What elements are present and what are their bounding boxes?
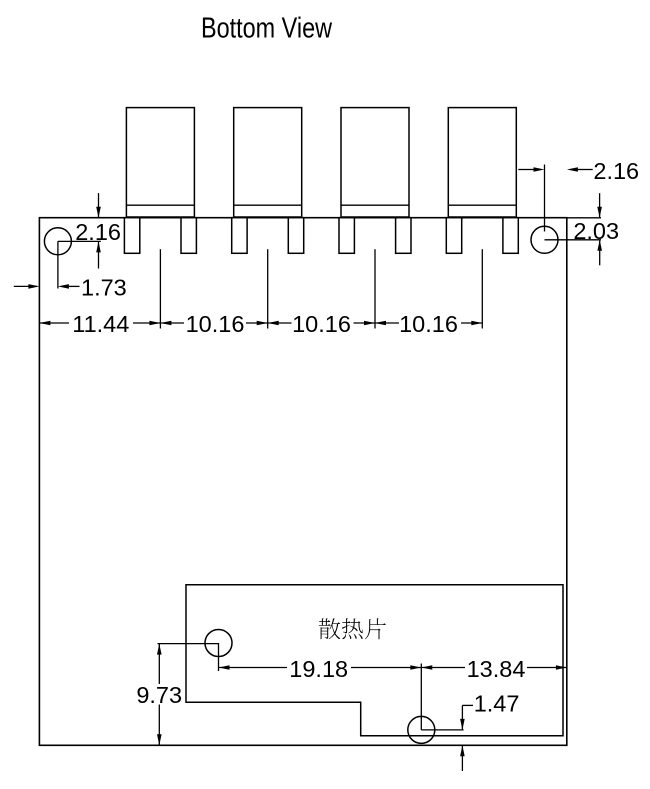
dimension line row (19.18 and 13.84) [219, 659, 567, 679]
dimension 2.03 (top-right hole to top edge) [545, 193, 620, 265]
dimension 2.16 (top-right hole to right edge) [518, 158, 639, 232]
svg-text:11.44: 11.44 [72, 311, 129, 337]
dimension 10.16 third [375, 321, 482, 326]
connector J4 right pin [503, 218, 518, 254]
connector J3 right pin [396, 218, 411, 254]
svg-text:1.47: 1.47 [474, 691, 520, 717]
extension line below connector J1 [159, 249, 161, 328]
extension line below connector J3 [374, 249, 376, 328]
connector J2 left pin [232, 218, 247, 254]
board outline [39, 218, 566, 746]
connector J1 left pin [124, 218, 139, 254]
heatsink hole left [205, 630, 232, 657]
connector J2 right pin [288, 218, 303, 254]
mounting hole top-left [44, 228, 71, 255]
dimension 10.16 second [268, 321, 375, 326]
svg-text:10.16: 10.16 [186, 311, 245, 337]
connector J1 right pin [181, 218, 196, 254]
svg-text:9.73: 9.73 [136, 682, 182, 708]
connector J2 body [234, 108, 302, 217]
svg-text:2.16: 2.16 [75, 219, 121, 245]
svg-text:2.16: 2.16 [593, 158, 639, 184]
dimension 10.16 first [160, 321, 267, 326]
extension line from heatsink hole bottom [420, 664, 422, 730]
svg-text:13.84: 13.84 [467, 656, 526, 682]
connector J4 body [448, 108, 516, 217]
svg-text:10.16: 10.16 [399, 311, 458, 337]
bottom arrow below board edge [460, 745, 465, 771]
svg-text:19.18: 19.18 [289, 656, 348, 682]
dimension 9.73 (heatsink hole to bottom edge) [135, 644, 219, 746]
svg-text:10.16: 10.16 [292, 311, 351, 337]
dimension line row (11.44 and 10.16 pitches) [39, 312, 482, 333]
dimension 1.73 (left edge to hole center) [14, 241, 127, 300]
heatsink label 散热片 [319, 618, 386, 639]
connector J4 left pin [446, 218, 461, 254]
connector J3 body [341, 108, 409, 217]
heatsink hole bottom [408, 716, 435, 743]
connector J1 body [126, 108, 194, 217]
svg-text:Bottom View: Bottom View [201, 13, 332, 45]
extension line from heatsink hole left [218, 643, 220, 671]
dimension 1.47 (bottom hole to bottom edge) [421, 691, 519, 730]
extension line below connector J2 [267, 249, 269, 328]
connector J3 left pin [339, 218, 354, 254]
extension line below connector J4 [481, 249, 483, 328]
heatsink outline [186, 585, 563, 736]
svg-text:2.03: 2.03 [573, 218, 619, 244]
svg-text:1.73: 1.73 [81, 275, 127, 301]
mounting hole top-right [531, 226, 558, 253]
dimension 2.16 (top-left hole to top edge) [58, 193, 121, 268]
